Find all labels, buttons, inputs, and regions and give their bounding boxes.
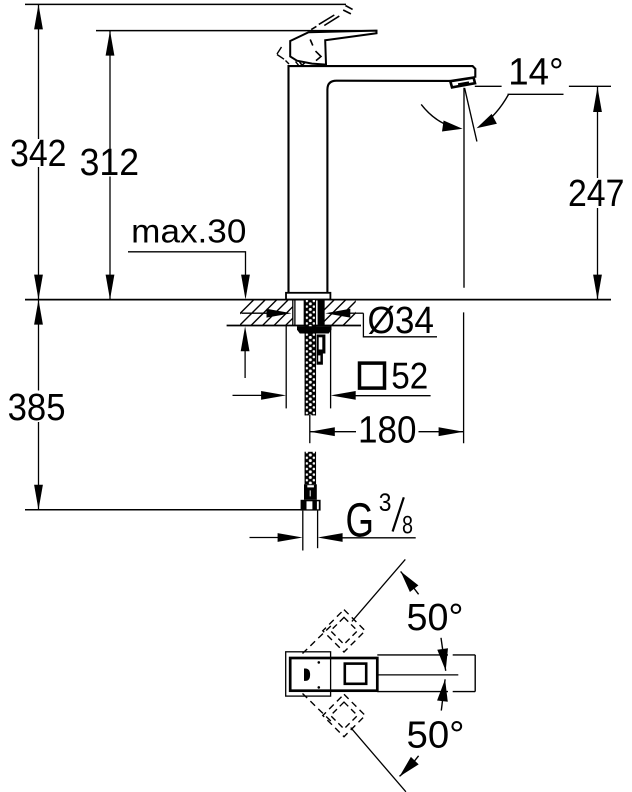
handle ghost dashes left bbox=[277, 47, 299, 65]
shank cylinder lines bbox=[294, 300, 296, 326]
spout height extension line at 247 top bbox=[475, 85, 502, 87]
svg-text:Ø34: Ø34 bbox=[368, 300, 435, 342]
dimension 180 bbox=[310, 312, 464, 443]
swivel arc arrow lower to centerline bbox=[437, 679, 450, 711]
handle inner crease bbox=[310, 40, 313, 46]
handle bottom notch bbox=[299, 61, 305, 65]
stream swivel arc left bbox=[421, 104, 457, 128]
leader under 14 degrees bbox=[508, 93, 564, 95]
escutcheon square top view bbox=[286, 652, 331, 696]
pivot dot upper bbox=[318, 661, 321, 664]
escutcheon base plate bbox=[286, 293, 330, 300]
threaded shank braid bbox=[305, 300, 316, 415]
dashed arm edge upper bbox=[303, 625, 332, 653]
dimension square52 bbox=[233, 326, 431, 409]
water stream tilted line bbox=[465, 88, 477, 142]
counter bottom line bbox=[227, 325, 361, 327]
hose connection hook upper bbox=[317, 335, 326, 354]
svg-text:G: G bbox=[346, 494, 375, 547]
square symbol of 52 bbox=[360, 363, 385, 388]
svg-text:247: 247 bbox=[568, 173, 624, 215]
svg-text:50°: 50° bbox=[407, 597, 464, 639]
second hose black band bbox=[318, 300, 324, 326]
max.30 arrow to counter top bbox=[241, 275, 250, 300]
hole edge left bbox=[292, 300, 294, 326]
svg-text:52: 52 bbox=[391, 356, 428, 397]
pivot dot lower bbox=[318, 686, 321, 689]
dimension 385 line bbox=[34, 300, 43, 510]
mounting nut bbox=[297, 326, 332, 333]
raised handle dashes bbox=[311, 6, 352, 30]
hose end nut bbox=[301, 500, 321, 511]
label G 3/8 bbox=[346, 489, 414, 547]
max.30 leader underline bbox=[128, 252, 246, 276]
cartridge square top view bbox=[345, 664, 366, 684]
svg-text:342: 342 bbox=[10, 133, 67, 175]
reference line top (342 level) bbox=[25, 3, 346, 5]
swivel arc arrow upper to centerline bbox=[437, 638, 451, 672]
handle inner dash bbox=[316, 51, 322, 61]
dashed handle ghost lower outer bbox=[323, 694, 365, 736]
svg-text:8: 8 bbox=[402, 512, 413, 540]
dashed arm edge lower bbox=[303, 694, 332, 722]
dimension Ø34 bbox=[241, 309, 437, 337]
svg-text:3: 3 bbox=[379, 489, 392, 517]
swivel arc arrow upper to line bbox=[396, 568, 418, 594]
spout top view bbox=[377, 655, 475, 692]
aerator bbox=[450, 78, 475, 88]
water stream vertical line bbox=[463, 88, 465, 288]
dimension 312 line bbox=[106, 31, 115, 300]
svg-text:312: 312 bbox=[80, 142, 139, 184]
dashed handle ghost upper outer bbox=[323, 610, 365, 652]
lower hose braid bbox=[305, 452, 316, 485]
faucet body outline bbox=[289, 66, 476, 293]
max.30 arrow below counter bbox=[241, 326, 250, 378]
hose connection hook lower bbox=[317, 354, 323, 365]
counter hatching bbox=[228, 300, 369, 326]
aerator outlet bbox=[458, 81, 469, 86]
hose ferrule bbox=[304, 484, 317, 500]
reference line bottom (385 level) bbox=[25, 509, 301, 511]
svg-text:385: 385 bbox=[8, 387, 66, 429]
dimension G3/8 bbox=[250, 533, 416, 542]
swivel diagonal line upper bbox=[352, 559, 405, 621]
svg-text:50°: 50° bbox=[407, 715, 465, 757]
svg-text:max.30: max.30 bbox=[131, 214, 246, 251]
svg-text:14°: 14° bbox=[508, 52, 563, 94]
dashed handle ghost upper inner bbox=[331, 617, 358, 644]
faucet body top view bbox=[290, 658, 377, 691]
reference line 312 level bbox=[96, 30, 377, 32]
countertop line bbox=[25, 299, 611, 301]
handle pivot D mark bbox=[304, 669, 310, 681]
handle lever outline bbox=[290, 31, 376, 65]
faucet body inner contour bbox=[327, 81, 450, 293]
svg-text:180: 180 bbox=[358, 410, 417, 452]
dimension 247 line bbox=[593, 87, 602, 300]
hole edge right bbox=[323, 300, 325, 326]
swivel arc arrow lower to line bbox=[396, 756, 419, 780]
G3/8 thread pipe bbox=[302, 511, 304, 551]
spout centerline bbox=[376, 674, 458, 676]
dimension 342 line bbox=[34, 4, 43, 299]
swivel diagonal line lower bbox=[351, 728, 406, 792]
dashed handle ghost lower inner bbox=[331, 702, 358, 729]
stream swivel arc right bbox=[481, 95, 509, 127]
